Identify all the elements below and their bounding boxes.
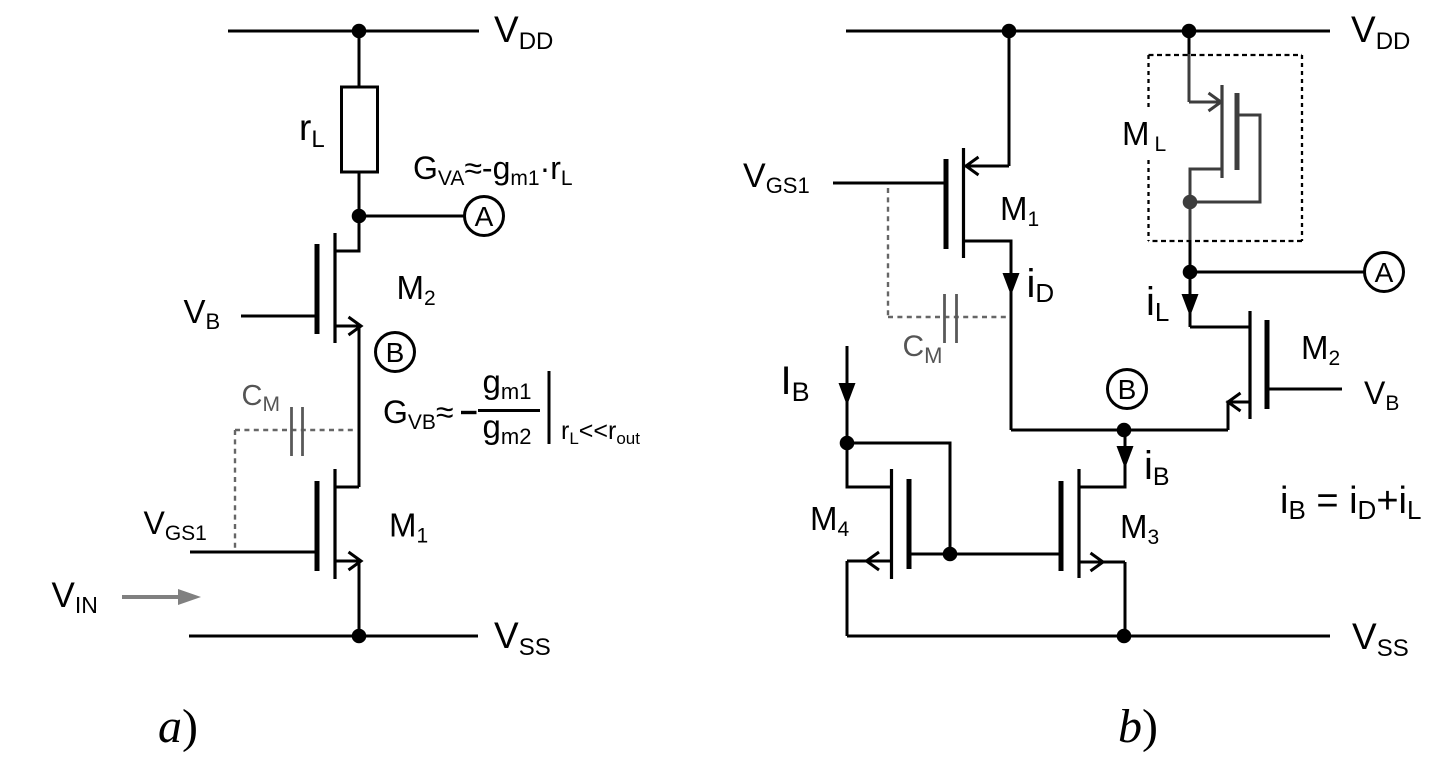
wire IB node to mirror gate — [847, 443, 950, 554]
svg-text:CM: CM — [242, 380, 280, 416]
svg-text:VDD: VDD — [1351, 9, 1410, 55]
transistor M2 drain wire — [336, 216, 359, 251]
transistor M3 source stub — [1080, 561, 1125, 564]
transistor M1 gate bar — [315, 481, 320, 571]
svg-text:GVA≈-gm1·rL: GVA≈-gm1·rL — [413, 150, 573, 190]
ML dotted box left — [1147, 55, 1149, 241]
GVB fraction bar — [478, 409, 540, 412]
terminal circle A (a) — [465, 197, 504, 236]
wire VGS1 to M1 gate (b) — [833, 182, 944, 185]
svg-text:M2: M2 — [397, 269, 436, 310]
capacitor CM (a) dashed lead horizontal — [235, 429, 357, 431]
node A junction dot — [352, 209, 367, 224]
IB arrow — [839, 383, 856, 406]
capacitor CM (b) dashed lead vertical — [887, 188, 889, 316]
transistor M4 source arrow — [867, 552, 880, 570]
svg-text:gm2: gm2 — [483, 408, 532, 449]
svg-text:M1: M1 — [389, 507, 428, 548]
current source IB wire — [846, 346, 849, 443]
svg-text:iB: iB — [1144, 444, 1170, 491]
capacitor CM (b) plates — [945, 294, 957, 343]
transistor M1 source stub — [336, 560, 359, 563]
node A dot (b) — [1183, 265, 1198, 280]
node label circle B (a) — [376, 333, 415, 372]
svg-text:iL: iL — [1146, 280, 1169, 327]
svg-text:IB: IB — [781, 359, 810, 407]
ML dotted box bottom — [1149, 240, 1303, 242]
junction dot VDD-ML (b) — [1182, 24, 1197, 39]
transistor M2 (b) source wire — [1228, 402, 1249, 430]
transistor M2 (b) channel bar — [1248, 311, 1251, 419]
GVB minus sign — [461, 411, 477, 414]
svg-text:a): a) — [158, 700, 198, 753]
svg-text:GVB≈: GVB≈ — [383, 394, 453, 434]
svg-text:VIN: VIN — [52, 576, 98, 618]
svg-text:rL<<rout: rL<<rout — [561, 417, 640, 448]
transistor M1 source arrow — [349, 552, 362, 570]
capacitor CM (b) dashed lead horizontal — [888, 316, 1010, 318]
svg-text:M1: M1 — [1000, 190, 1039, 231]
ML source wire gray — [1188, 54, 1191, 102]
svg-text:A: A — [475, 201, 494, 232]
svg-text:VSS: VSS — [1352, 616, 1409, 662]
wire VGS1 to M1 gate — [190, 551, 315, 554]
junction dot VDD-rL — [352, 24, 367, 39]
node label circle B (b) — [1108, 370, 1147, 409]
svg-text:iD: iD — [1027, 262, 1055, 308]
transistor M1 channel bar — [333, 469, 336, 579]
junction dot VDD-M1 (b) — [1002, 24, 1017, 39]
transistor M2 gate bar — [315, 244, 320, 334]
VSS rail (circuit a) — [189, 635, 478, 638]
transistor ML source arrow — [1209, 93, 1222, 111]
svg-text:M4: M4 — [810, 500, 850, 541]
VDD rail (circuit a) — [228, 30, 479, 33]
wire ML to node A — [1189, 240, 1192, 272]
junction dot mirror gate node — [943, 547, 958, 562]
junction dot ML gate-drain — [1183, 195, 1198, 210]
svg-text:B: B — [386, 337, 405, 368]
svg-text:VGS1: VGS1 — [144, 505, 207, 545]
junction dot M1-VSS — [352, 629, 367, 644]
transistor M2 (b) drain stub — [1190, 326, 1249, 329]
wire M2 source to M1 drain (node B wire) — [358, 326, 361, 487]
svg-text:CM: CM — [903, 330, 943, 368]
wire VDD to M1 source (b) — [1008, 31, 1011, 166]
ML drain wire gray — [1189, 202, 1192, 241]
svg-text:VDD: VDD — [494, 9, 553, 55]
transistor M4 channel bar — [890, 469, 893, 579]
wire VDD to ML source — [1188, 31, 1191, 56]
transistor M4 source stub — [847, 560, 891, 563]
wire M1 source to VSS — [358, 561, 361, 636]
transistor M4 gate bar — [907, 479, 912, 569]
wire VB to M2 gate — [241, 315, 315, 318]
svg-text:VSS: VSS — [494, 615, 551, 661]
transistor M2 source arrow — [349, 317, 362, 335]
svg-text:M2: M2 — [1301, 329, 1340, 370]
transistor M3 channel bar — [1077, 469, 1080, 578]
wire resistor to node A — [358, 172, 361, 217]
wire node A to M2 drain with iL — [1189, 272, 1192, 327]
VIN input arrow gray — [122, 589, 201, 605]
wire M3 source to VSS — [1124, 562, 1127, 636]
svg-text:rL: rL — [299, 107, 325, 153]
GVB evaluated-at bar — [548, 371, 551, 444]
terminal circle A (b) — [1365, 253, 1404, 292]
junction dot M3-VSS — [1117, 629, 1132, 644]
transistor M4 gate stub — [911, 553, 950, 556]
junction dot node B (b) — [1117, 423, 1132, 438]
svg-text:B: B — [1118, 374, 1137, 405]
transistor ML drain stub — [1190, 169, 1222, 202]
transistor M1 (b) source stub — [964, 165, 1009, 168]
ML dotted box right — [1301, 55, 1303, 241]
svg-text:VB: VB — [184, 293, 221, 334]
transistor M1 (b) source arrow — [966, 157, 979, 175]
VDD rail (circuit b) — [846, 30, 1330, 33]
current iD arrow — [1003, 273, 1020, 296]
svg-text:iB = iD+iL: iB = iD+iL — [1280, 480, 1421, 525]
transistor M1 (b) drain stub — [964, 241, 1011, 430]
svg-text:M3: M3 — [1120, 508, 1159, 549]
label GVB formula — [383, 363, 531, 449]
transistor ML channel bar — [1220, 85, 1223, 178]
wire VB to M2 gate (b) — [1269, 388, 1342, 391]
svg-text:VB: VB — [1364, 375, 1399, 415]
wire mirror gates — [950, 553, 1059, 556]
svg-text:b): b) — [1118, 700, 1158, 753]
current iB arrow — [1117, 446, 1134, 469]
wire VDD to resistor — [358, 31, 361, 88]
svg-text:gm1: gm1 — [483, 363, 532, 404]
node B wire (b) — [1011, 429, 1228, 432]
transistor M3 source arrow — [1091, 553, 1104, 571]
transistor M3 gate bar — [1059, 481, 1064, 571]
transistor M2 (b) gate bar — [1265, 320, 1270, 409]
wire node A to terminal A (b) — [1190, 271, 1364, 274]
transistor ML gate-drain tie — [1197, 115, 1260, 202]
capacitor CM (a) plates — [292, 407, 303, 456]
resistor rL — [342, 87, 378, 172]
VSS rail (circuit b) — [847, 635, 1330, 638]
transistor M2 source stub — [336, 325, 359, 328]
wire IB node to M4 drain — [847, 443, 890, 487]
junction dot IB node — [840, 436, 855, 451]
transistor M2 channel bar — [333, 233, 336, 343]
transistor M3 drain stub — [1080, 430, 1125, 487]
transistor ML gate bar — [1235, 93, 1240, 170]
wire node A to terminal A — [359, 215, 465, 218]
svg-text:A: A — [1375, 257, 1394, 288]
ML dotted box top — [1149, 54, 1303, 56]
transistor M2 (b) source arrow — [1228, 393, 1241, 411]
svg-text:VGS1: VGS1 — [743, 157, 810, 198]
transistor ML source stub — [1189, 101, 1220, 104]
svg-text:ML: ML — [1122, 115, 1166, 156]
transistor M1 drain stub — [336, 486, 359, 489]
wire M4 source to VSS — [846, 561, 849, 636]
transistor M1 (b) gate bar — [944, 159, 949, 249]
transistor M1 (b) channel bar — [962, 148, 965, 258]
capacitor CM (a) dashed lead vertical — [234, 430, 236, 550]
current iL arrow — [1182, 294, 1199, 317]
